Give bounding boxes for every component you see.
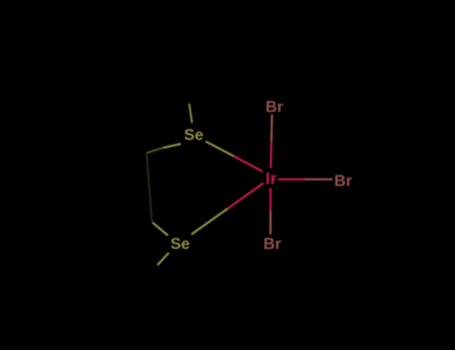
wire Ir-Br right bond, Br half (brown) — [306, 178, 333, 180]
wire C2-Se2 bond — [153, 223, 169, 236]
wire Ir-Br top bond, Br half (brown) — [270, 115, 273, 142]
wire Se1-C1 bond (faint part) — [147, 148, 164, 153]
svg-text:Br: Br — [334, 173, 352, 190]
wire Ir-Br top bond, Ir half (crimson) — [270, 141, 273, 168]
wire Ir-Br right bond, Ir half (crimson) — [278, 178, 306, 180]
svg-text:Se: Se — [170, 236, 190, 253]
node red artifact dot near Ir — [273, 178, 275, 180]
svg-text:Br: Br — [266, 99, 284, 116]
wire Ir-Br bottom bond, Br half (brown) — [269, 212, 271, 235]
wire C1-C2 backbone bond (very faint) — [147, 154, 153, 222]
svg-text:Se: Se — [184, 127, 204, 144]
svg-text:Br: Br — [263, 236, 281, 253]
svg-text:Ir: Ir — [265, 169, 277, 188]
wire Se2-Ir bond, Ir half (crimson) — [228, 183, 264, 209]
wire methyl stub on Se1 (top) — [189, 104, 192, 124]
wire Se2-Ir bond, Se half (olive) — [192, 209, 228, 235]
wire Ir-Br bottom bond, Ir half (crimson) — [269, 188, 271, 212]
wire Se1-Ir bond, Se half (olive) — [206, 141, 234, 156]
wire methyl stub on Se2 (bottom) — [158, 253, 169, 265]
wire Se1-C1 bond (bright part) — [163, 144, 181, 148]
wire Se1-Ir bond, Ir half (crimson) — [234, 156, 263, 172]
